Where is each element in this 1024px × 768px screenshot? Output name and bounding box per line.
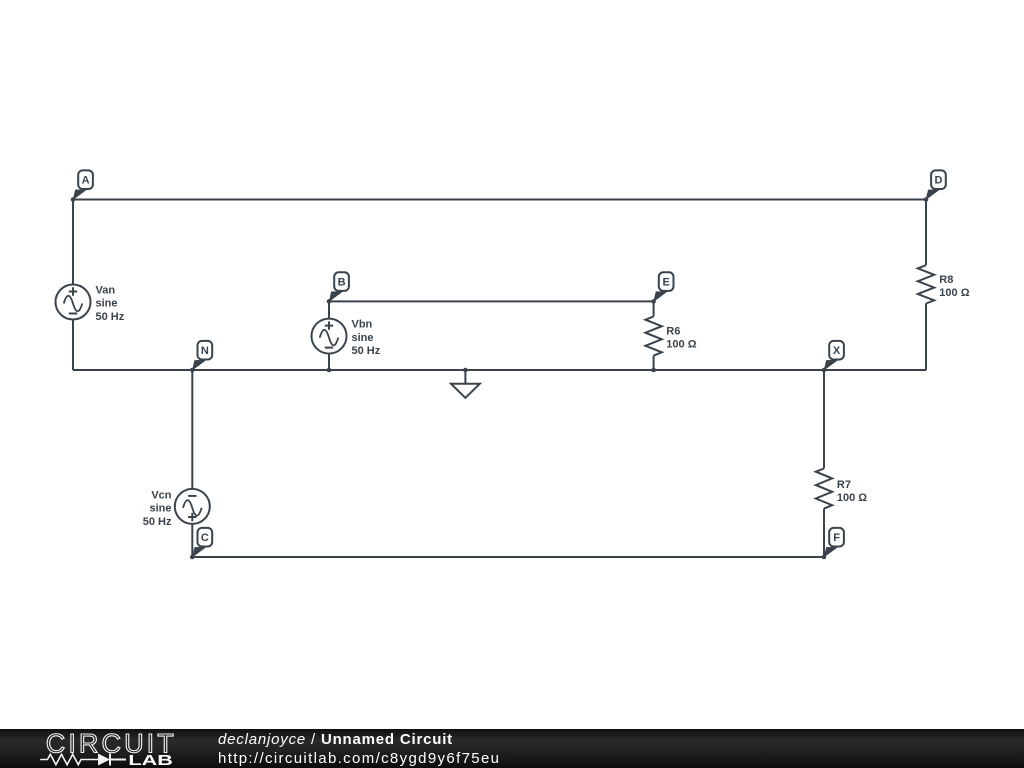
resistor R7	[816, 468, 832, 508]
junction at X	[822, 368, 827, 373]
junction at D	[924, 197, 929, 202]
wire bottom C-F	[192, 556, 824, 558]
svg-text:E: E	[663, 277, 670, 289]
svg-text:50 Hz: 50 Hz	[96, 311, 125, 323]
wire N to Vcn top	[191, 370, 193, 489]
svg-text:Vcn: Vcn	[151, 489, 171, 501]
svg-text:N: N	[201, 345, 209, 357]
svg-text:A: A	[82, 175, 90, 187]
node C	[192, 528, 212, 558]
node E	[653, 272, 673, 302]
wire Vcn bottom to C	[191, 524, 193, 557]
junction at A	[71, 197, 76, 202]
resistor R6	[645, 316, 661, 355]
svg-text:R7: R7	[837, 479, 851, 491]
svg-text:50 Hz: 50 Hz	[352, 345, 381, 357]
wire R6 bottom to mid	[653, 356, 655, 370]
svg-text:100 Ω: 100 Ω	[837, 492, 867, 504]
wire E to R6 top	[653, 301, 655, 316]
CircuitLab logo	[0, 729, 180, 768]
svg-text:C: C	[201, 532, 209, 544]
voltage source Vbn	[312, 319, 347, 354]
svg-text:100 Ω: 100 Ω	[666, 338, 696, 350]
wire top A-D	[73, 199, 926, 201]
junction at E	[651, 299, 656, 304]
svg-text:sine: sine	[352, 332, 374, 344]
svg-text:50 Hz: 50 Hz	[143, 516, 172, 528]
junction at F	[822, 555, 827, 560]
node D	[926, 170, 946, 200]
R8 value label	[939, 274, 969, 299]
svg-text:sine: sine	[96, 298, 118, 310]
svg-text:D: D	[935, 175, 943, 187]
wire R8 bottom to mid	[925, 304, 927, 371]
junction at N	[190, 368, 195, 373]
wire Vbn bottom to mid	[328, 353, 330, 370]
junction ground-neutral	[463, 368, 468, 373]
wire B-E	[329, 300, 654, 302]
Van value label	[96, 284, 125, 322]
svg-text:R6: R6	[666, 326, 680, 338]
wire left A to Van top	[72, 200, 74, 285]
wire mid neutral row	[73, 369, 926, 371]
wire Van bottom to mid	[72, 320, 74, 371]
Vcn value label	[143, 489, 172, 527]
junction R6-neutral	[651, 368, 656, 373]
wire D to R8 top	[925, 200, 927, 266]
node A	[73, 170, 93, 200]
ground	[451, 384, 480, 398]
svg-text:Van: Van	[96, 284, 116, 296]
svg-text:B: B	[338, 277, 346, 289]
voltage source Van	[56, 285, 91, 320]
svg-text:LAB: LAB	[128, 753, 173, 768]
junction at C	[190, 555, 195, 560]
node N	[192, 341, 212, 371]
svg-text:Vbn: Vbn	[352, 319, 373, 331]
node F	[824, 528, 844, 558]
wire B to Vbn top	[328, 301, 330, 319]
svg-text:F: F	[833, 532, 840, 544]
Vbn value label	[352, 319, 381, 357]
wire ground stub	[464, 370, 466, 384]
junction Vbn-neutral	[327, 368, 332, 373]
node B	[329, 272, 349, 302]
svg-text:100 Ω: 100 Ω	[939, 287, 969, 299]
svg-text:sine: sine	[149, 503, 171, 515]
voltage source Vcn	[175, 489, 210, 524]
resistor R8	[918, 265, 934, 303]
wire X to R7 top	[823, 370, 825, 468]
wire R7 bottom to F	[823, 509, 825, 557]
node X	[824, 341, 844, 371]
R6 value label	[666, 326, 696, 351]
svg-text:X: X	[833, 345, 841, 357]
R7 value label	[837, 479, 867, 504]
junction at B	[327, 299, 332, 304]
footer bar	[0, 729, 1024, 768]
svg-text:R8: R8	[939, 274, 953, 286]
